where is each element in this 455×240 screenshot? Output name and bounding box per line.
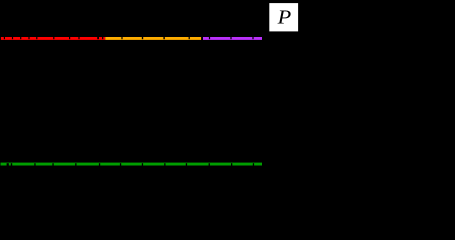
tick n12 bottom — [231, 163, 232, 165]
top track segment orange (P haplotype, middle block) — [105, 37, 201, 40]
tick m5 top — [36, 37, 37, 39]
tick m7 top — [69, 37, 70, 39]
tick n11 bottom — [209, 163, 210, 165]
tick m6 top — [53, 37, 54, 39]
bottom track green bar (second haplotype) — [1, 163, 263, 166]
top track marker ticks (black, from top edge) — [4, 37, 254, 40]
svg-text:P: P — [277, 7, 292, 28]
top track segment red (P haplotype, left block) — [1, 37, 105, 40]
tick n10 bottom — [186, 163, 187, 165]
tick m4 top — [28, 37, 29, 39]
tick m15 top (orange/purple boundary gap) — [201, 37, 203, 40]
tick n4 bottom — [52, 163, 53, 165]
tick n13 bottom — [253, 163, 254, 165]
tick m18 top — [252, 37, 253, 39]
tick m12 top — [142, 37, 143, 39]
tick n5 bottom — [75, 163, 76, 165]
tick n2 bottom — [11, 163, 12, 165]
tick m10 top — [102, 37, 103, 39]
tick m17 top — [230, 37, 231, 39]
tick n6 bottom — [99, 163, 100, 165]
label box P (white annotation box) — [269, 3, 298, 31]
tick m14 top — [189, 37, 190, 39]
bottom track marker ticks (black, from bottom edge) — [7, 163, 255, 165]
tick m9 top (wide) — [97, 37, 99, 39]
tick n1 bottom (wide) — [7, 163, 9, 165]
tick m11 top — [121, 37, 122, 39]
tick n7 bottom — [120, 163, 121, 165]
tick m3 top — [20, 37, 21, 39]
tick n9 bottom — [164, 163, 165, 165]
top track segment purple (P haplotype, right block) — [203, 37, 262, 40]
tick m16 top — [209, 37, 210, 39]
tick n8 bottom — [142, 163, 143, 165]
tick m1 top — [4, 37, 5, 39]
tick m8 top — [78, 37, 79, 39]
tick m2 top — [12, 37, 13, 39]
tick n3 bottom — [34, 163, 35, 165]
tick m13 top — [163, 37, 164, 39]
